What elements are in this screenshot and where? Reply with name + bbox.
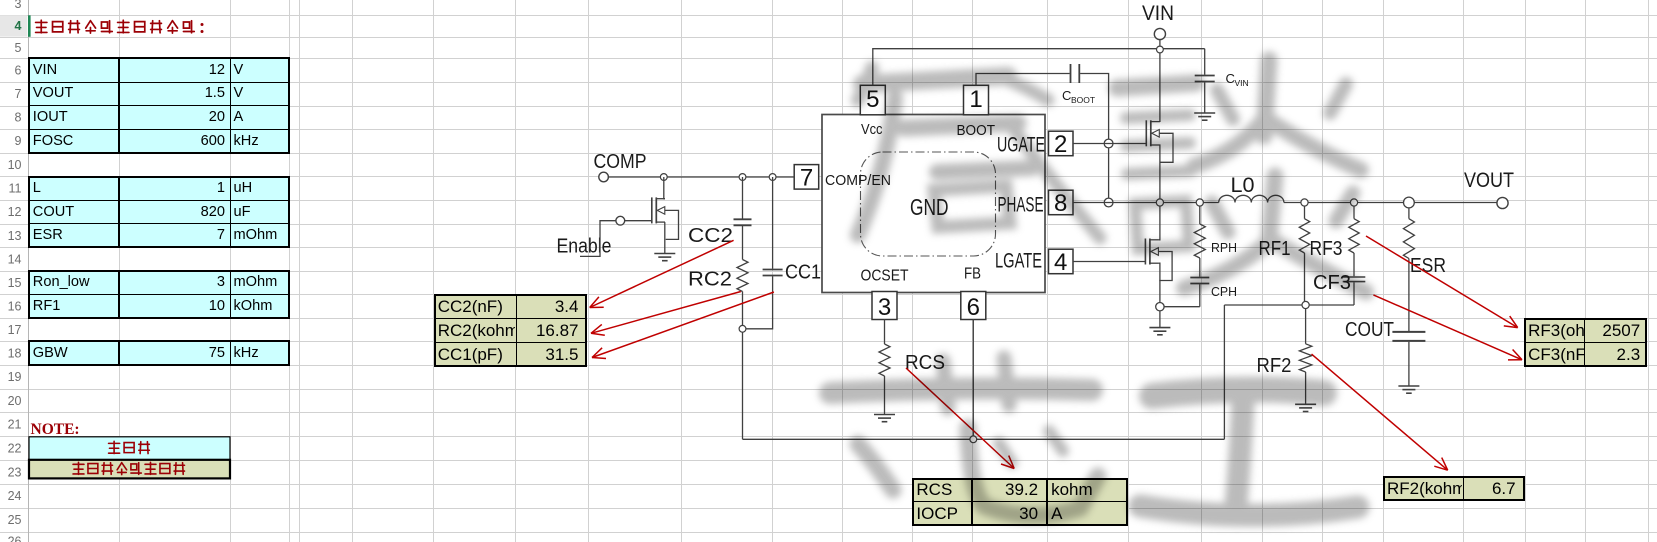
arrow RCS to result	[906, 368, 1014, 469]
IC internal GND dashed region	[861, 152, 996, 256]
wire RC2 down to bottom run	[742, 292, 744, 440]
wire RF3 tap down	[1353, 206, 1355, 219]
wire pin1 up and right to CBOOT	[976, 74, 1070, 86]
wire Q-EN source down	[664, 222, 666, 253]
ground (Q-EN source)	[654, 253, 675, 255]
node ESR tap	[1404, 197, 1415, 208]
wire node to CPH bottom	[1164, 306, 1200, 308]
wire pin4 to Q2 gate	[1073, 261, 1145, 263]
wire ESR to COUT	[1408, 259, 1410, 332]
pin 1 (BOOT)	[964, 85, 989, 115]
watermark char 2 (tan)	[1117, 83, 1196, 88]
wire Q1 drain to VIN	[1159, 121, 1161, 123]
arrow RF3 to result	[1366, 236, 1518, 328]
wire Q2 source down	[1159, 263, 1160, 303]
node phase/RPH	[1196, 199, 1203, 206]
COMP terminal	[599, 172, 609, 182]
wire RCS to ground	[884, 376, 886, 415]
transistor Q2 (low side NMOS)	[1144, 239, 1146, 265]
wire L0 node down to RF1	[1304, 206, 1306, 219]
node boot/ugate crossing	[1104, 139, 1113, 148]
pin 2 (UGATE)	[1049, 131, 1074, 156]
wire COUT to ground	[1408, 342, 1410, 386]
wire bottom run	[743, 438, 1225, 440]
wire pin3 down	[884, 319, 886, 344]
wire RF2 tap down	[1305, 309, 1307, 344]
wire node to ground	[1159, 311, 1161, 328]
wire COMP tap to CC1	[772, 177, 774, 269]
VIN terminal	[1154, 28, 1165, 39]
node RF3 tap	[1350, 199, 1357, 206]
arrow CC1 to result	[592, 292, 774, 358]
node source/CPH/gnd	[1156, 303, 1164, 311]
pin 8 (PHASE)	[1049, 190, 1074, 215]
ground (CVIN)	[1194, 112, 1215, 114]
wire CC1 to join node	[746, 276, 773, 329]
capacitor CC2	[734, 218, 752, 220]
op-amp/controller IC U1 body	[822, 115, 1045, 293]
ground (COUT)	[1398, 385, 1419, 387]
node L0/RF1	[1301, 199, 1308, 206]
wire Q1 source to phase	[1159, 145, 1161, 199]
wire rail corner down to CVIN	[1204, 49, 1206, 75]
capacitor CF3	[1343, 276, 1366, 278]
node junction CC1 tap	[769, 174, 776, 181]
node RF2 tap	[1302, 301, 1309, 308]
node junction CC2 tap	[739, 174, 746, 181]
wire RF1 to rail	[1304, 253, 1306, 301]
wire RF3 to CF3	[1353, 253, 1355, 276]
Enable terminal circle	[616, 216, 625, 225]
arrow CC2 to result	[590, 240, 734, 307]
capacitor CPH	[1190, 277, 1209, 279]
wire CVIN to ground	[1204, 82, 1206, 113]
resistor RF2	[1299, 344, 1311, 372]
pin 7 (COMP/EN)	[794, 165, 819, 190]
wire Q2 drain to phase	[1159, 206, 1160, 240]
wire Vcc/VIN top rail	[873, 49, 1205, 86]
wire CBOOT right and down to phase	[1080, 74, 1109, 199]
transistor Q-EN (enable NMOS)	[651, 197, 653, 223]
wire circle to Q-en gate	[625, 220, 652, 222]
resistor ESR	[1403, 219, 1414, 259]
node boot/phase junction	[1104, 198, 1113, 207]
node FB tap	[970, 436, 977, 443]
wire FB rail	[1224, 304, 1354, 306]
resistor RCS	[879, 344, 890, 376]
arrow CF3 to result	[1373, 295, 1522, 360]
transistor Q1 (high side NMOS)	[1145, 120, 1147, 146]
wire pin6 down to FB run	[972, 319, 974, 436]
wire COMP to pin7	[608, 176, 794, 178]
wire ESR tap down	[1408, 208, 1410, 219]
wire phase to RPH	[1199, 206, 1201, 224]
pin 6 (FB)	[961, 292, 986, 320]
resistor RPH	[1194, 224, 1205, 258]
wire Q-EN drain to COMP wire	[664, 177, 665, 199]
wire pin2 to Q1 gate	[1073, 143, 1146, 145]
wire L0 to VOUT	[1284, 202, 1497, 204]
wire phase rail	[1073, 202, 1219, 204]
capacitor COUT	[1392, 331, 1425, 333]
wire RPH to CPH	[1199, 258, 1201, 277]
wire FB run up to divider rail	[1223, 305, 1225, 439]
resistor RF3	[1349, 219, 1359, 253]
wire CC2 to RC2	[742, 226, 744, 260]
resistor RC2	[737, 260, 748, 292]
ground (Q2 source)	[1149, 327, 1170, 329]
arrow RF2 to result	[1312, 354, 1448, 470]
pin 4 (LGATE)	[1049, 249, 1074, 274]
wire COMP tap to CC2	[742, 177, 744, 219]
node junction on COMP wire	[660, 174, 667, 181]
arrow RC2 to result	[591, 292, 741, 334]
capacitor CC1	[763, 269, 783, 271]
wire RF2 to ground	[1305, 372, 1307, 404]
watermark char 1 (zhan)	[858, 68, 872, 100]
title text (chinese)	[36, 20, 195, 33]
node RC2/CC1 join	[739, 325, 746, 332]
cell row22 (cyan)	[29, 437, 230, 460]
VOUT terminal	[1497, 197, 1508, 208]
pin 5 (Vcc)	[860, 85, 885, 115]
wire VIN terminal to rail	[1159, 40, 1161, 47]
ground (RF2)	[1295, 403, 1316, 405]
wire CPH down	[1199, 284, 1201, 306]
watermark char 4 (gong)	[1152, 390, 1324, 396]
wire CF3 to rail	[1353, 282, 1355, 305]
node phase/Q1	[1156, 199, 1163, 206]
pin 3 (OCSET)	[872, 292, 897, 320]
cell row23 (olive)	[29, 460, 230, 479]
wire VIN junction down to Q1 drain	[1159, 53, 1161, 122]
ground (RCS)	[874, 414, 895, 416]
capacitor CBOOT	[1070, 64, 1072, 83]
watermark char 3 (xin)	[830, 389, 1092, 393]
capacitor CVIN	[1195, 75, 1215, 77]
inductor L0	[1219, 195, 1284, 202]
wire Enable to gate	[580, 221, 616, 257]
resistor RF1	[1299, 219, 1309, 253]
